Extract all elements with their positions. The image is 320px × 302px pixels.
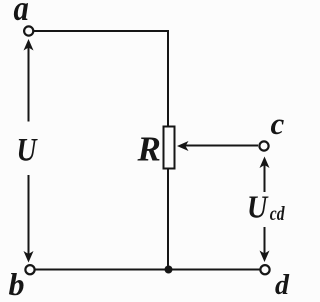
svg-text:U: U (17, 131, 39, 168)
svg-text:c: c (271, 106, 285, 141)
svg-text:b: b (9, 266, 25, 302)
svg-text:R: R (137, 130, 161, 169)
svg-text:a: a (14, 0, 29, 29)
svg-text:d: d (275, 270, 290, 301)
svg-text:cd: cd (270, 202, 286, 224)
svg-text:U: U (247, 189, 269, 225)
